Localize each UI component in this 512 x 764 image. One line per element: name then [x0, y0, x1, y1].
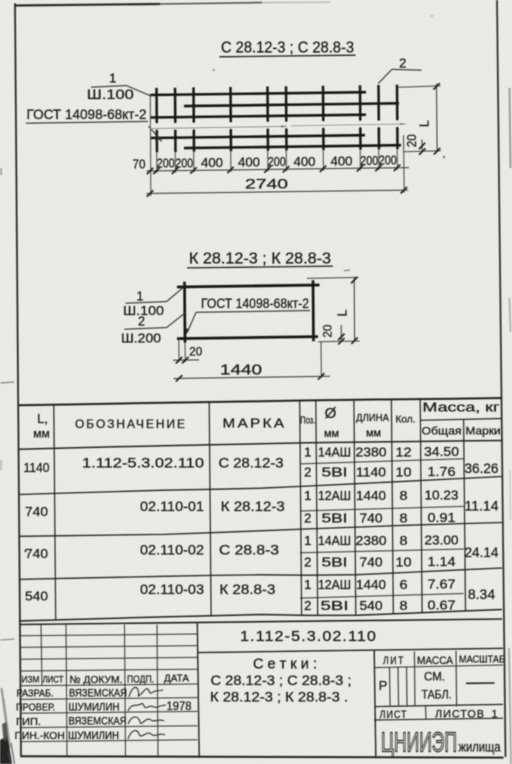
- svg-text:Поз.: Поз.: [300, 415, 315, 427]
- svg-text:2: 2: [304, 464, 311, 479]
- svg-text:ГИП.: ГИП.: [16, 716, 41, 728]
- svg-text:ВЯЗЕМСКАЯ: ВЯЗЕМСКАЯ: [69, 716, 127, 728]
- svg-text:Ш.100: Ш.100: [87, 87, 134, 102]
- svg-text:Ш.200: Ш.200: [121, 330, 161, 345]
- svg-text:5ВI: 5ВI: [322, 511, 348, 526]
- svg-text:10: 10: [396, 464, 412, 479]
- svg-text:740: 740: [360, 555, 383, 570]
- svg-text:ДАТА: ДАТА: [164, 672, 189, 684]
- svg-text:ИЗМ: ИЗМ: [22, 674, 40, 684]
- svg-text:14АШ: 14АШ: [318, 444, 351, 459]
- svg-text:С 28.12-3: С 28.12-3: [219, 456, 284, 471]
- svg-text:20: 20: [405, 134, 419, 147]
- svg-text:Р: Р: [379, 678, 388, 693]
- svg-text:2380: 2380: [356, 533, 387, 548]
- svg-text:1: 1: [304, 577, 311, 592]
- svg-text:20: 20: [321, 324, 335, 337]
- svg-text:400: 400: [331, 154, 353, 168]
- svg-text:Ø: Ø: [325, 405, 337, 422]
- svg-text:ЛИСТОВ: ЛИСТОВ: [435, 709, 485, 721]
- svg-text:С 28.12-3 ; С 28.8-3: С 28.12-3 ; С 28.8-3: [221, 40, 354, 57]
- svg-text:400: 400: [294, 155, 316, 169]
- svg-text:ШУМИЛИН: ШУМИЛИН: [69, 701, 120, 713]
- svg-text:02.110-01: 02.110-01: [140, 499, 204, 514]
- svg-text:2: 2: [304, 555, 311, 570]
- svg-text:200: 200: [175, 156, 193, 170]
- svg-text:К 28.12-3 ; К 28.8-3: К 28.12-3 ; К 28.8-3: [189, 250, 331, 267]
- svg-text:7.67: 7.67: [428, 576, 456, 591]
- svg-text:8.34: 8.34: [468, 586, 495, 602]
- svg-text:200: 200: [360, 154, 378, 168]
- svg-text:36.26: 36.26: [465, 460, 499, 476]
- svg-text:1440: 1440: [356, 488, 386, 503]
- svg-text:1.76: 1.76: [428, 464, 456, 479]
- svg-text:С е т к и :: С е т к и :: [253, 657, 317, 673]
- svg-text:23.00: 23.00: [425, 533, 459, 548]
- svg-text:СМ.: СМ.: [424, 670, 445, 684]
- svg-text:02.110-03: 02.110-03: [140, 582, 204, 597]
- svg-text:10: 10: [396, 555, 412, 570]
- svg-text:К 28.8-3: К 28.8-3: [219, 582, 275, 597]
- svg-text:740: 740: [360, 511, 383, 526]
- svg-text:400: 400: [201, 156, 223, 170]
- svg-text:1: 1: [137, 290, 144, 304]
- svg-text:Марки: Марки: [466, 426, 501, 438]
- svg-text:1.112-5.3.02.110: 1.112-5.3.02.110: [82, 456, 204, 471]
- svg-text:1: 1: [109, 70, 116, 85]
- svg-text:0.91: 0.91: [428, 510, 456, 525]
- svg-text:2740: 2740: [245, 176, 288, 192]
- svg-text:5ВI: 5ВI: [322, 555, 348, 570]
- svg-text:L: L: [336, 309, 350, 316]
- svg-text:1: 1: [304, 488, 311, 503]
- svg-text:мм: мм: [324, 428, 339, 440]
- svg-text:МАРКА: МАРКА: [223, 417, 287, 431]
- svg-text:1: 1: [304, 444, 311, 459]
- svg-text:№ ДОКУМ.: № ДОКУМ.: [70, 674, 123, 686]
- svg-text:Кол.: Кол.: [396, 414, 416, 426]
- svg-text:2: 2: [138, 315, 145, 329]
- svg-text:12АШ: 12АШ: [318, 577, 351, 592]
- svg-text:МАССА: МАССА: [417, 655, 454, 667]
- svg-text:РАЗРАБ.: РАЗРАБ.: [17, 688, 54, 700]
- svg-text:1978: 1978: [167, 701, 192, 713]
- svg-text:2380: 2380: [356, 444, 387, 459]
- svg-text:L,: L,: [37, 411, 48, 426]
- svg-text:8: 8: [400, 598, 408, 613]
- svg-text:14АШ: 14АШ: [318, 533, 351, 548]
- svg-text:ЛИТ: ЛИТ: [383, 655, 405, 667]
- svg-text:12: 12: [396, 444, 412, 459]
- svg-text:34.50: 34.50: [424, 444, 459, 459]
- svg-text:ВЯЗЕМСКАЯ: ВЯЗЕМСКАЯ: [69, 687, 127, 699]
- svg-text:К 28.12-3 ; К 28.8-3 .: К 28.12-3 ; К 28.8-3 .: [210, 688, 348, 704]
- svg-text:20: 20: [189, 345, 202, 359]
- svg-text:1: 1: [304, 533, 311, 548]
- svg-text:ГОСТ 14098-68кт-2: ГОСТ 14098-68кт-2: [27, 106, 147, 122]
- svg-text:С 28.12-3 ; С 28.8-3 ;: С 28.12-3 ; С 28.8-3 ;: [211, 672, 352, 688]
- svg-text:1.14: 1.14: [428, 554, 456, 569]
- svg-text:5ВI: 5ВI: [322, 464, 348, 479]
- svg-text:1440: 1440: [356, 577, 386, 592]
- svg-text:ЦНИИЭП: ЦНИИЭП: [381, 727, 457, 758]
- svg-text:1440: 1440: [220, 363, 262, 379]
- svg-text:200: 200: [157, 157, 175, 171]
- svg-text:740: 740: [25, 546, 48, 561]
- svg-text:12АШ: 12АШ: [318, 488, 351, 503]
- svg-text:8: 8: [400, 488, 408, 503]
- svg-text:10.23: 10.23: [425, 488, 459, 503]
- svg-text:ПОДП.: ПОДП.: [127, 673, 154, 685]
- svg-text:200: 200: [268, 155, 286, 169]
- svg-text:2: 2: [304, 511, 311, 526]
- svg-text:1.112-5.3.02.110: 1.112-5.3.02.110: [240, 628, 377, 645]
- svg-text:400: 400: [238, 156, 260, 170]
- svg-text:8: 8: [400, 533, 408, 548]
- svg-text:5ВI: 5ВI: [321, 598, 349, 613]
- svg-text:1140: 1140: [356, 464, 386, 479]
- svg-text:С 28.8-3: С 28.8-3: [219, 543, 279, 558]
- svg-text:740: 740: [25, 504, 48, 519]
- svg-text:2: 2: [399, 55, 406, 70]
- svg-text:Г.ИН.-КОН: Г.ИН.-КОН: [15, 731, 65, 742]
- svg-text:11.14: 11.14: [465, 498, 499, 514]
- svg-text:L: L: [418, 120, 432, 127]
- svg-text:ПРОВЕР.: ПРОВЕР.: [16, 702, 55, 714]
- svg-text:540: 540: [360, 598, 383, 613]
- svg-text:24.14: 24.14: [465, 544, 499, 560]
- svg-text:ГОСТ 14098-68кт-2: ГОСТ 14098-68кт-2: [201, 296, 309, 311]
- svg-text:мм: мм: [366, 428, 381, 440]
- svg-text:6: 6: [400, 577, 408, 592]
- svg-text:70: 70: [133, 157, 146, 171]
- svg-text:МАСШТАБ: МАСШТАБ: [459, 655, 505, 666]
- svg-text:жилища: жилища: [459, 739, 501, 755]
- svg-text:Общая: Общая: [422, 426, 462, 438]
- svg-text:1: 1: [491, 708, 497, 720]
- svg-text:0.67: 0.67: [428, 597, 456, 612]
- svg-text:ЛИСТ: ЛИСТ: [43, 674, 64, 684]
- svg-text:Масса, кг: Масса, кг: [423, 401, 501, 415]
- svg-text:мм: мм: [33, 427, 50, 441]
- svg-text:ЛИСТ: ЛИСТ: [380, 709, 408, 721]
- svg-text:8: 8: [400, 511, 408, 526]
- svg-text:02.110-02: 02.110-02: [140, 543, 204, 558]
- svg-text:ДЛИНА: ДЛИНА: [356, 412, 389, 424]
- svg-text:ОБОЗНАЧЕНИЕ: ОБОЗНАЧЕНИЕ: [75, 417, 187, 431]
- svg-text:540: 540: [25, 588, 48, 603]
- svg-text:К 28.12-3: К 28.12-3: [221, 499, 285, 514]
- svg-text:1140: 1140: [24, 460, 50, 475]
- svg-text:200: 200: [379, 154, 397, 168]
- svg-text:ТАБЛ.: ТАБЛ.: [422, 688, 452, 702]
- svg-text:ШУМИЛИН: ШУМИЛИН: [68, 730, 119, 742]
- svg-text:2: 2: [304, 598, 311, 613]
